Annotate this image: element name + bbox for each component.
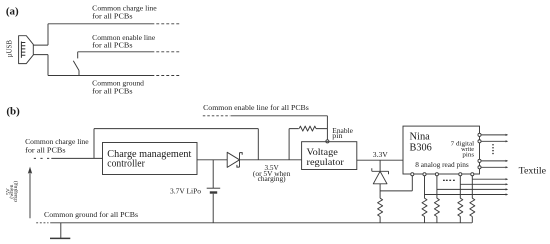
svg-text:controller: controller xyxy=(107,158,145,169)
svg-text:Common enable line for all PCB: Common enable line for all PCBs xyxy=(203,103,309,112)
svg-text:3.3V: 3.3V xyxy=(373,150,389,159)
svg-text:3.7V LiPo: 3.7V LiPo xyxy=(170,186,201,195)
svg-text:for all PCBs: for all PCBs xyxy=(92,86,132,95)
svg-text:charging): charging) xyxy=(258,175,287,183)
svg-text:Common charge line: Common charge line xyxy=(25,137,89,146)
svg-text:pins: pins xyxy=(462,151,474,158)
svg-text:pin: pin xyxy=(332,132,343,140)
svg-text:regulator: regulator xyxy=(307,157,345,168)
svg-text:B306: B306 xyxy=(410,142,432,153)
svg-text:(a): (a) xyxy=(6,5,19,17)
svg-text:for all PCBs: for all PCBs xyxy=(25,146,66,155)
svg-text:charging): charging) xyxy=(12,181,19,202)
svg-text:(b): (b) xyxy=(6,105,20,117)
svg-text:for all PCBs: for all PCBs xyxy=(92,41,132,50)
svg-text:for all PCBs: for all PCBs xyxy=(92,11,132,20)
svg-text:8 analog read pins: 8 analog read pins xyxy=(415,161,469,169)
svg-text:Textile: Textile xyxy=(519,167,546,177)
svg-text:Nina: Nina xyxy=(410,132,431,143)
svg-text:Common ground for all PCBs: Common ground for all PCBs xyxy=(44,210,138,219)
svg-text:µUSB: µUSB xyxy=(6,40,14,58)
